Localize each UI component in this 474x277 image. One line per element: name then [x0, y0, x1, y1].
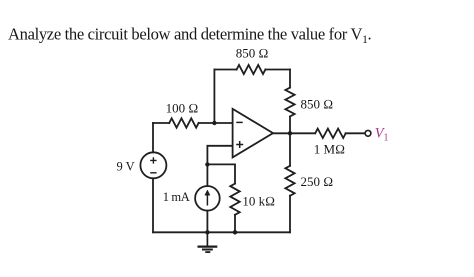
resistor 1 Mohm (horizontal)	[315, 129, 346, 138]
svg-text:9 V: 9 V	[117, 160, 135, 174]
svg-text:250 Ω: 250 Ω	[301, 174, 334, 189]
wire feedback left vertical	[213, 70, 215, 122]
resistor 100 ohm (horizontal)	[169, 118, 198, 127]
svg-text:100 Ω: 100 Ω	[166, 101, 199, 116]
wire plus junction to 10k branch	[207, 164, 235, 183]
wire op-amp output	[273, 132, 290, 134]
wire feedback top right	[265, 69, 290, 71]
terminal V1 open circle	[365, 130, 371, 136]
node junction noninverting	[205, 162, 209, 166]
wire feedback top left	[214, 69, 236, 71]
current source I 1mA circle	[195, 186, 220, 211]
wire left rail to 100 ohm	[153, 122, 169, 124]
svg-text:1 mA: 1 mA	[163, 190, 190, 204]
9V source plus sign	[150, 157, 156, 163]
1mA source arrow	[205, 190, 210, 206]
wire output node to 1M resistor	[290, 132, 315, 134]
wire 850 ohm to output node	[289, 117, 291, 134]
op-amp plus input sign	[236, 141, 243, 148]
resistor 250 ohm (vertical)	[285, 166, 294, 196]
svg-text:Analyze the circuit below and: Analyze the circuit below and determine …	[8, 25, 372, 46]
node junction 10k bottom	[233, 230, 237, 234]
wire left rail lower	[152, 178, 154, 232]
wire plus junction to 1mA source	[206, 164, 208, 186]
9V source minus sign	[150, 172, 156, 174]
svg-text:1 MΩ: 1 MΩ	[314, 142, 345, 157]
wire 1M to terminal	[346, 132, 366, 134]
wire 250 ohm to bottom rail	[289, 196, 291, 233]
wire bottom rail	[153, 231, 290, 233]
voltage source V 9V circle	[140, 152, 166, 178]
op-amp minus input sign	[236, 121, 242, 123]
wire output node to 250 ohm	[289, 133, 291, 166]
svg-text:850 Ω: 850 Ω	[236, 46, 269, 61]
ground	[198, 232, 218, 252]
node junction ground	[205, 230, 209, 234]
node junction output	[288, 131, 292, 135]
wire 100 ohm to inverting node	[199, 122, 233, 124]
wire 1mA source to bottom rail	[206, 211, 208, 233]
wire noninverting input	[207, 146, 232, 165]
op-amp U1	[233, 109, 273, 157]
resistor 850 ohm right (vertical)	[285, 88, 294, 117]
svg-text:10 kΩ: 10 kΩ	[242, 193, 275, 208]
wire left rail upper	[152, 123, 154, 152]
resistor 10 kohm (vertical)	[230, 184, 239, 215]
node junction inverting input	[212, 121, 216, 125]
svg-text:850 Ω: 850 Ω	[301, 97, 334, 112]
wire 10k to bottom rail	[234, 215, 236, 233]
resistor 850 ohm feedback (horizontal)	[237, 65, 266, 74]
wire right branch upper	[289, 70, 291, 88]
